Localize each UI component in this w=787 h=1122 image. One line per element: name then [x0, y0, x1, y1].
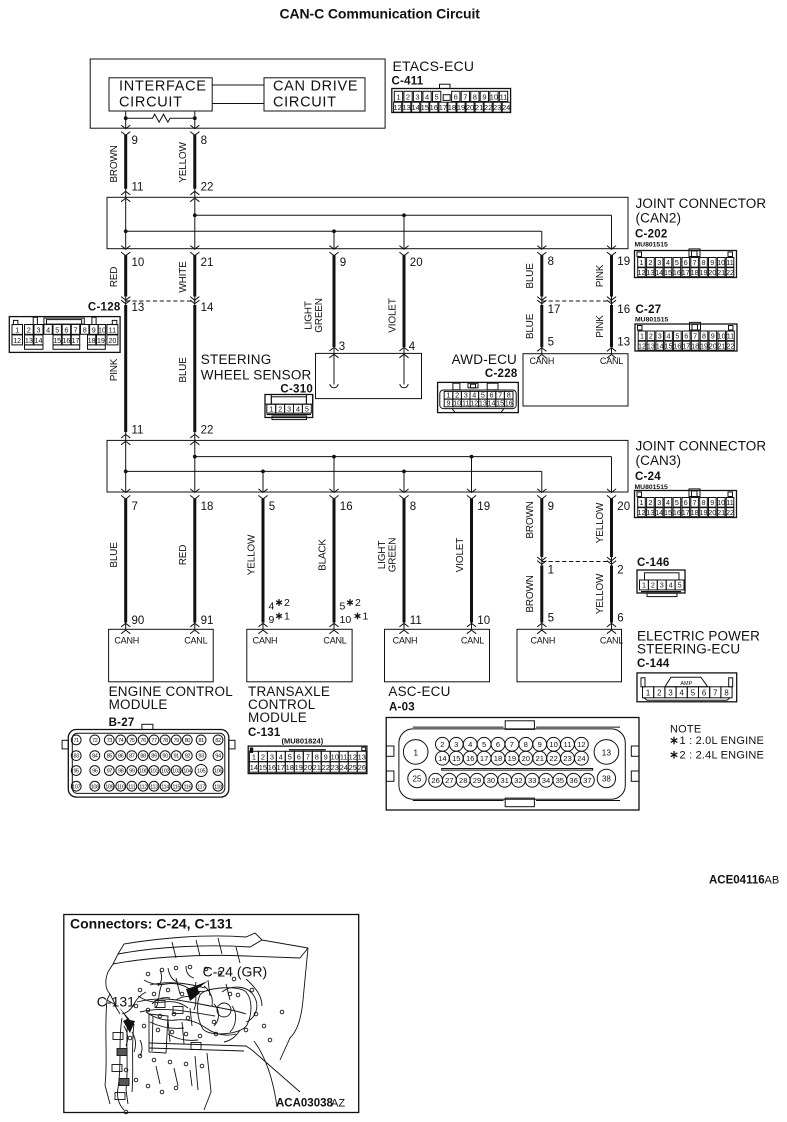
- svg-text:WHEEL SENSOR: WHEEL SENSOR: [201, 368, 312, 383]
- svg-text:21: 21: [475, 103, 483, 112]
- svg-text:NOTE: NOTE: [670, 724, 701, 736]
- svg-text:YELLOW: YELLOW: [178, 142, 189, 183]
- svg-text:C-144: C-144: [637, 658, 670, 670]
- svg-text:97: 97: [107, 769, 113, 775]
- svg-text:CIRCUIT: CIRCUIT: [119, 95, 183, 111]
- svg-text:LIGHT: LIGHT: [304, 301, 315, 330]
- svg-text:19: 19: [295, 763, 303, 772]
- svg-text:8: 8: [201, 135, 207, 147]
- svg-text:16: 16: [466, 754, 474, 763]
- svg-text:20: 20: [108, 336, 116, 345]
- svg-text:19: 19: [508, 754, 516, 763]
- svg-text:7: 7: [132, 501, 138, 513]
- svg-text:3: 3: [37, 325, 41, 334]
- svg-text:22: 22: [484, 103, 492, 112]
- svg-text:(CAN3): (CAN3): [636, 453, 682, 468]
- svg-text:1: 1: [640, 332, 644, 341]
- svg-text:6: 6: [684, 332, 688, 341]
- ETACS-ECU box: [90, 59, 385, 128]
- svg-text:19: 19: [700, 268, 708, 277]
- transaxle control module box: [247, 629, 352, 682]
- svg-text:PINK: PINK: [109, 358, 120, 381]
- CAN drive circuit block: [264, 78, 365, 111]
- svg-text:18: 18: [286, 763, 294, 772]
- svg-text:5: 5: [675, 258, 679, 267]
- svg-text:10: 10: [132, 257, 145, 269]
- interface circuit block U-IF: [109, 78, 212, 111]
- svg-text:7: 7: [306, 753, 310, 762]
- svg-text:14: 14: [656, 341, 664, 350]
- connector C-27 inline crossing: [537, 297, 616, 304]
- wire VIOLET CAN2 pin20 to SWS pin4: [403, 255, 406, 353]
- connector C-27 pin face: [635, 322, 737, 351]
- crossing into CAN2 pin 11: [121, 191, 130, 201]
- svg-text:99: 99: [129, 769, 135, 775]
- svg-text:2: 2: [406, 92, 410, 101]
- svg-text:12: 12: [577, 740, 585, 749]
- crossing into ECU pin 4: [258, 623, 267, 633]
- wire BLUE CAN3 pin7 to ECM pin90: [124, 499, 127, 630]
- svg-text:C-228: C-228: [485, 368, 518, 380]
- svg-text:13: 13: [647, 341, 655, 350]
- svg-text:118: 118: [214, 784, 222, 790]
- svg-text:C-24 (GR): C-24 (GR): [203, 964, 268, 980]
- svg-text:5: 5: [675, 498, 679, 507]
- svg-text:13: 13: [25, 336, 33, 345]
- svg-text:C-128: C-128: [88, 302, 121, 314]
- svg-text:BROWN: BROWN: [525, 575, 536, 612]
- svg-text:1 : 2.0L ENGINE: 1 : 2.0L ENGINE: [680, 735, 765, 747]
- svg-text:3: 3: [415, 92, 419, 101]
- svg-text:9: 9: [538, 740, 542, 749]
- svg-text:2: 2: [261, 753, 265, 762]
- svg-text:5: 5: [691, 689, 696, 698]
- svg-text:4: 4: [296, 404, 300, 413]
- svg-text:CANL: CANL: [184, 636, 207, 646]
- svg-text:AWD-ECU: AWD-ECU: [452, 352, 517, 367]
- svg-text:23: 23: [493, 103, 501, 112]
- svg-text:MODULE: MODULE: [248, 710, 307, 725]
- svg-text:14: 14: [201, 302, 214, 314]
- crossing out of CAN3 pin 8: [399, 489, 408, 499]
- svg-text:34: 34: [542, 776, 550, 785]
- svg-text:12: 12: [470, 399, 478, 408]
- wire BLUE C-128 pin14 to CAN3 pin 22: [193, 305, 196, 440]
- svg-text:87: 87: [129, 754, 135, 760]
- svg-text:85: 85: [107, 754, 113, 760]
- svg-text:CAN DRIVE: CAN DRIVE: [273, 79, 358, 95]
- svg-text:B-27: B-27: [109, 717, 135, 729]
- svg-text:YELLOW: YELLOW: [246, 534, 257, 575]
- svg-text:20: 20: [522, 754, 530, 763]
- wire between interface and CAN drive circuit: [212, 85, 264, 104]
- crossing into ECU pin 11: [399, 623, 408, 633]
- svg-text:4: 4: [669, 581, 673, 590]
- svg-text:28: 28: [459, 776, 467, 785]
- svg-text:11: 11: [132, 425, 144, 437]
- electric power steering ECU box: [517, 629, 623, 682]
- svg-text:C-131: C-131: [248, 727, 281, 739]
- svg-text:29: 29: [473, 776, 481, 785]
- svg-text:5: 5: [548, 613, 554, 625]
- svg-text:17: 17: [439, 103, 447, 112]
- svg-text:2: 2: [617, 565, 623, 577]
- connector B-27 pin face: [62, 724, 235, 797]
- svg-text:71: 71: [73, 738, 79, 744]
- crossing into ECU pin 10: [467, 623, 476, 633]
- connector C-128 inline crossing: [121, 297, 199, 304]
- svg-text:13: 13: [617, 337, 630, 349]
- svg-text:CANL: CANL: [600, 636, 623, 646]
- svg-text:C-131: C-131: [97, 994, 135, 1010]
- svg-text:36: 36: [569, 776, 577, 785]
- svg-text:106: 106: [214, 769, 222, 775]
- svg-text:6: 6: [64, 325, 68, 334]
- connector C-228 pin face: [438, 382, 519, 412]
- CAN3 internal CANL bus: [193, 440, 612, 492]
- svg-text:104: 104: [183, 769, 191, 775]
- svg-text:CANL: CANL: [600, 356, 623, 366]
- svg-text:7: 7: [693, 332, 697, 341]
- svg-text:3: 3: [668, 689, 672, 698]
- svg-text:30: 30: [487, 776, 495, 785]
- svg-text:107: 107: [72, 784, 80, 790]
- svg-text:22: 22: [549, 754, 557, 763]
- svg-text:75: 75: [129, 738, 135, 744]
- crossing out of CAN2 pin 19: [607, 246, 616, 256]
- svg-text:15: 15: [496, 399, 504, 408]
- svg-text:9: 9: [548, 501, 554, 513]
- svg-text:STEERING-ECU: STEERING-ECU: [637, 642, 740, 657]
- svg-text:C-310: C-310: [280, 384, 313, 396]
- svg-text:2: 2: [648, 498, 652, 507]
- svg-text:JOINT CONNECTOR: JOINT CONNECTOR: [636, 196, 767, 211]
- svg-text:74: 74: [118, 738, 124, 744]
- svg-text:27: 27: [445, 776, 453, 785]
- svg-text:17: 17: [480, 754, 488, 763]
- svg-text:CANH: CANH: [114, 636, 139, 646]
- svg-text:17: 17: [72, 336, 80, 345]
- svg-text:MU801515: MU801515: [635, 242, 668, 249]
- svg-text:20: 20: [410, 257, 423, 269]
- svg-text:22: 22: [726, 508, 734, 517]
- svg-text:77: 77: [151, 738, 157, 744]
- svg-text:96: 96: [92, 769, 98, 775]
- svg-text:12: 12: [638, 268, 646, 277]
- svg-text:16: 16: [617, 304, 630, 316]
- svg-text:10: 10: [340, 614, 352, 626]
- svg-text:VIOLET: VIOLET: [387, 298, 398, 332]
- svg-text:16: 16: [430, 103, 438, 112]
- svg-text:17: 17: [682, 508, 690, 517]
- svg-text:91: 91: [201, 615, 214, 627]
- svg-text:13: 13: [646, 508, 654, 517]
- crossing into AWD pin 13: [607, 348, 616, 358]
- svg-text:6: 6: [297, 753, 301, 762]
- svg-text:15: 15: [452, 754, 460, 763]
- svg-text:5: 5: [305, 404, 309, 413]
- svg-text:21: 21: [313, 763, 321, 772]
- dashboard illustration: [105, 933, 308, 1114]
- svg-text:110: 110: [117, 784, 125, 790]
- svg-text:1: 1: [363, 611, 369, 623]
- svg-text:1: 1: [413, 747, 418, 757]
- svg-text:26: 26: [358, 763, 366, 772]
- svg-text:115: 115: [172, 784, 180, 790]
- label JOINT CONNECTOR (CAN3): [636, 439, 767, 469]
- svg-text:3: 3: [270, 753, 274, 762]
- crossing out of CAN3 pin 18: [190, 489, 199, 499]
- svg-text:109: 109: [105, 784, 113, 790]
- svg-text:82: 82: [215, 738, 221, 744]
- svg-text:9: 9: [324, 753, 328, 762]
- svg-text:INTERFACE: INTERFACE: [119, 79, 207, 95]
- svg-text:13: 13: [602, 747, 612, 757]
- svg-text:18: 18: [691, 268, 699, 277]
- svg-text:2: 2: [648, 258, 652, 267]
- svg-text:10: 10: [718, 332, 726, 341]
- svg-text:16: 16: [673, 341, 681, 350]
- svg-text:10: 10: [490, 92, 498, 101]
- terminating resistor between CANH and CANL: [124, 114, 197, 122]
- wire YELLOW CAN3 pin5 to TCM: [262, 499, 265, 630]
- svg-text:3: 3: [287, 404, 291, 413]
- svg-text:CANH: CANH: [253, 636, 278, 646]
- svg-text:1: 1: [548, 565, 554, 577]
- svg-text:C-24: C-24: [635, 471, 661, 483]
- svg-text:90: 90: [132, 615, 145, 627]
- svg-text:5: 5: [288, 753, 292, 762]
- svg-text:6: 6: [617, 613, 623, 625]
- svg-text:7: 7: [693, 498, 697, 507]
- svg-text:86: 86: [118, 754, 124, 760]
- note block: [670, 724, 764, 762]
- svg-text:2: 2: [649, 332, 653, 341]
- svg-text:8: 8: [702, 258, 706, 267]
- steering wheel sensor box: [316, 353, 422, 398]
- ASC-ECU box: [385, 629, 490, 682]
- svg-text:4: 4: [409, 341, 416, 353]
- svg-text:19: 19: [477, 501, 490, 513]
- crossing into SWS pin 3: [329, 347, 338, 357]
- svg-text:10: 10: [98, 325, 106, 334]
- svg-text:7: 7: [510, 740, 514, 749]
- svg-text:10: 10: [717, 498, 725, 507]
- crossing into CAN3 pin 11: [121, 434, 130, 444]
- wire BROWN pin9 to CAN2 pin 11: [124, 135, 127, 197]
- svg-text:19: 19: [700, 341, 708, 350]
- svg-text:MU801515: MU801515: [635, 317, 668, 324]
- svg-text:12: 12: [638, 341, 646, 350]
- svg-text:7: 7: [713, 689, 717, 698]
- svg-text:13: 13: [479, 399, 487, 408]
- crossing out of CAN2 pin 8: [537, 246, 546, 256]
- svg-text:5: 5: [269, 501, 275, 513]
- svg-text:4: 4: [279, 753, 283, 762]
- svg-text:5: 5: [678, 581, 682, 590]
- svg-text:11: 11: [564, 740, 572, 749]
- svg-text:9: 9: [447, 399, 451, 408]
- wire BLUE C-27 pin17 to AWD pin5: [540, 305, 543, 354]
- AWD-ECU box: [523, 354, 628, 406]
- svg-text:GREEN: GREEN: [387, 538, 398, 573]
- svg-text:BLUE: BLUE: [525, 313, 536, 339]
- svg-text:10: 10: [717, 258, 725, 267]
- svg-text:3: 3: [454, 740, 458, 749]
- svg-text:BLACK: BLACK: [317, 539, 328, 571]
- pin 5*2 10*1: [340, 597, 369, 626]
- svg-text:8: 8: [83, 325, 87, 334]
- svg-text:8: 8: [524, 740, 528, 749]
- svg-text:5: 5: [340, 601, 346, 613]
- crossing into ECU pin 6e: [607, 623, 616, 633]
- connector C-310 pin face: [265, 395, 313, 420]
- svg-text:RED: RED: [109, 267, 120, 288]
- svg-text:18: 18: [691, 341, 699, 350]
- svg-text:22: 22: [727, 341, 735, 350]
- arrow to C-131: [119, 1007, 135, 1033]
- svg-text:16: 16: [505, 399, 513, 408]
- svg-text:84: 84: [92, 754, 98, 760]
- svg-text:18: 18: [88, 336, 96, 345]
- wire VIOLET CAN3 pin19 to ASC pin10: [470, 499, 473, 630]
- svg-text:24: 24: [502, 103, 510, 112]
- connector C-202 pin face: [635, 249, 737, 278]
- svg-text:11: 11: [726, 498, 733, 507]
- svg-text:3: 3: [657, 498, 661, 507]
- svg-text:WHITE: WHITE: [178, 261, 189, 293]
- svg-text:92: 92: [185, 754, 191, 760]
- svg-text:(CAN2): (CAN2): [636, 211, 682, 226]
- svg-text:93: 93: [198, 754, 204, 760]
- label LIGHT GREEN: [377, 538, 399, 573]
- svg-text:7: 7: [463, 92, 467, 101]
- label JOINT CONNECTOR (CAN2): [636, 196, 767, 226]
- crossing out of CAN3 pin 20: [607, 489, 616, 499]
- wire YELLOW C-146 pin2 to EPS pin6: [610, 566, 613, 630]
- svg-text:CANH: CANH: [530, 636, 555, 646]
- svg-text:37: 37: [583, 776, 591, 785]
- svg-text:BLUE: BLUE: [525, 263, 536, 289]
- svg-text:15: 15: [421, 103, 429, 112]
- svg-text:2: 2: [278, 404, 282, 413]
- svg-text:STEERING: STEERING: [201, 352, 272, 367]
- svg-text:LIGHT: LIGHT: [377, 541, 388, 570]
- svg-text:11: 11: [410, 615, 422, 627]
- svg-text:101: 101: [150, 769, 158, 775]
- wire RED CAN2 pin10 to C-128 pin13: [124, 255, 127, 305]
- svg-text:9: 9: [710, 258, 714, 267]
- svg-text:2 : 2.4L ENGINE: 2 : 2.4L ENGINE: [680, 749, 765, 761]
- connector C-144 pin face: [637, 673, 737, 702]
- svg-text:16: 16: [340, 501, 353, 513]
- svg-text:ACA03038: ACA03038: [276, 1098, 333, 1110]
- svg-text:4: 4: [468, 740, 472, 749]
- svg-text:11: 11: [340, 753, 348, 762]
- svg-text:JOINT CONNECTOR: JOINT CONNECTOR: [636, 439, 767, 454]
- svg-text:111: 111: [128, 784, 136, 790]
- pin 4*2 9*1: [269, 597, 291, 626]
- svg-text:6: 6: [496, 740, 500, 749]
- svg-text:20: 20: [708, 268, 716, 277]
- svg-text:13: 13: [403, 103, 411, 112]
- svg-text:15: 15: [259, 763, 267, 772]
- label TRANSAXLE CONTROL MODULE: [248, 684, 330, 725]
- svg-text:1: 1: [15, 325, 19, 334]
- svg-text:15: 15: [664, 268, 672, 277]
- svg-text:12: 12: [638, 508, 646, 517]
- svg-text:9: 9: [340, 257, 346, 269]
- CAN3 internal CANH bus: [124, 440, 542, 492]
- svg-text:6: 6: [702, 689, 706, 698]
- svg-text:78: 78: [162, 738, 168, 744]
- svg-text:10: 10: [549, 740, 557, 749]
- svg-text:1: 1: [396, 92, 400, 101]
- svg-text:21: 21: [535, 754, 543, 763]
- crossing out of CAN3 pin 5: [258, 489, 267, 499]
- wire PINK C-27 pin16 to AWD pin13: [610, 305, 613, 354]
- label STEERING WHEEL SENSOR: [201, 352, 312, 383]
- svg-text:33: 33: [528, 776, 536, 785]
- wire BLACK CAN3 pin16 to TCM: [333, 499, 336, 630]
- svg-text:72: 72: [92, 738, 98, 744]
- arrow to C-24: [186, 981, 208, 1001]
- svg-text:22: 22: [322, 763, 330, 772]
- svg-text:108: 108: [91, 784, 99, 790]
- connector C-128 pin face: [9, 317, 120, 353]
- svg-text:19: 19: [700, 508, 708, 517]
- svg-text:9: 9: [92, 325, 96, 334]
- svg-text:VIOLET: VIOLET: [455, 538, 466, 572]
- svg-text:114: 114: [161, 784, 169, 790]
- svg-text:23: 23: [331, 763, 339, 772]
- wire WHITE CAN2 pin21 to C-128 pin14: [193, 255, 196, 305]
- svg-text:9: 9: [269, 614, 275, 626]
- svg-text:23: 23: [563, 754, 571, 763]
- wire PINK C-128 pin13 to CAN3 pin 11: [124, 305, 127, 440]
- svg-text:CANL: CANL: [461, 636, 484, 646]
- svg-text:15: 15: [53, 336, 61, 345]
- svg-text:20: 20: [466, 103, 474, 112]
- connector location figure frame: [64, 915, 359, 1113]
- svg-text:9: 9: [710, 498, 714, 507]
- svg-text:38: 38: [602, 775, 611, 784]
- connector C-146 pin face: [637, 570, 685, 597]
- svg-text:CANH: CANH: [393, 636, 418, 646]
- svg-text:8: 8: [410, 501, 416, 513]
- svg-text:1: 1: [640, 498, 644, 507]
- connector C-24 pin face: [635, 489, 737, 518]
- svg-text:81: 81: [198, 738, 204, 744]
- svg-text:C-202: C-202: [635, 229, 668, 241]
- drawing number ACE04116AB: [709, 875, 779, 887]
- crossing out of CAN3 pin 9: [537, 489, 546, 499]
- svg-text:80: 80: [185, 738, 191, 744]
- crossing out of CAN2 pin 9: [329, 246, 338, 256]
- svg-text:18: 18: [691, 508, 699, 517]
- label ELECTRIC POWER STEERING-ECU: [637, 629, 760, 657]
- engine control module box: [109, 629, 214, 682]
- CAN2 internal CANH bus: [124, 197, 542, 248]
- svg-text:19: 19: [97, 336, 105, 345]
- crossing out of CAN2 pin 10: [121, 246, 130, 256]
- svg-text:11: 11: [462, 399, 469, 408]
- svg-text:2: 2: [657, 689, 661, 698]
- svg-text:102: 102: [161, 769, 169, 775]
- connector C-131 pin face: [248, 746, 367, 774]
- svg-text:21: 21: [717, 268, 725, 277]
- svg-text:105: 105: [197, 769, 205, 775]
